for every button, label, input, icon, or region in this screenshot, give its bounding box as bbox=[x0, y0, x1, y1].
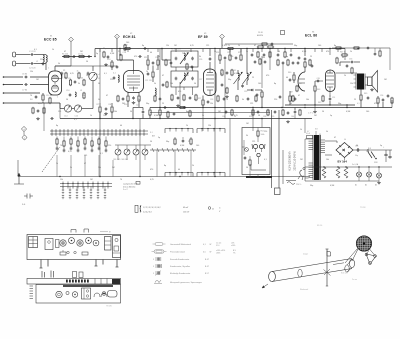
wire bbox=[159, 49, 161, 108]
capacitor C102 bbox=[139, 55, 141, 58]
legend sym resistor2 bbox=[154, 250, 164, 253]
wire bbox=[126, 145, 128, 149]
resistor R135 bbox=[259, 59, 261, 64]
svg-text:4 Ω an Klemme: 4 Ω an Klemme bbox=[123, 186, 135, 188]
wire bbox=[344, 158, 346, 161]
small box bottom bbox=[275, 188, 281, 195]
svg-text:40: 40 bbox=[194, 99, 196, 101]
resistor R15 bbox=[157, 60, 159, 65]
wire bbox=[50, 130, 148, 132]
svg-text:5p: 5p bbox=[158, 137, 160, 139]
svg-text:0,25: 0,25 bbox=[38, 103, 42, 105]
switch contact S9 bbox=[83, 129, 85, 136]
fuse F1 bbox=[307, 136, 313, 139]
svg-text:Ganzmetall-Widerstand: Ganzmetall-Widerstand bbox=[170, 243, 191, 246]
switch contact S16 bbox=[111, 129, 113, 136]
resistor R57 bbox=[105, 141, 107, 146]
svg-text:3k: 3k bbox=[199, 56, 201, 58]
svg-text:10k: 10k bbox=[306, 99, 309, 101]
wire bbox=[261, 90, 263, 91]
svg-text:0,5M: 0,5M bbox=[154, 115, 159, 117]
svg-text:3k: 3k bbox=[242, 99, 244, 101]
resistor R60 bbox=[174, 139, 176, 144]
svg-text:40: 40 bbox=[286, 77, 288, 79]
wire bbox=[144, 145, 146, 149]
svg-text:A2: A2 bbox=[365, 184, 367, 187]
svg-text:3: 3 bbox=[153, 266, 154, 268]
junction bbox=[284, 48, 285, 49]
junction bbox=[257, 48, 258, 49]
svg-text:125: 125 bbox=[252, 141, 255, 143]
svg-text:±30%: ±30% bbox=[216, 253, 221, 255]
resistor R108 bbox=[189, 111, 191, 116]
svg-text:56: 56 bbox=[98, 83, 100, 85]
svg-text:40: 40 bbox=[342, 57, 344, 59]
capacitor C22 bbox=[144, 47, 146, 50]
svg-text:V2: V2 bbox=[130, 33, 132, 35]
fuse symbol bbox=[287, 182, 295, 185]
junction bbox=[202, 107, 203, 108]
capacitor C127 bbox=[311, 65, 314, 67]
wire bbox=[18, 176, 310, 178]
svg-text:10k: 10k bbox=[170, 83, 173, 85]
legend sym cap1 bbox=[155, 257, 157, 261]
T1b cap left bbox=[175, 77, 178, 79]
legend sym wire bbox=[155, 280, 161, 283]
tube V3 EF89 envelope bbox=[204, 69, 217, 96]
capacitor C108 bbox=[251, 54, 254, 56]
svg-text:C3 5p: C3 5p bbox=[78, 54, 83, 56]
T1a cap left bbox=[175, 57, 178, 59]
rear circle dark bbox=[102, 292, 106, 296]
wire bbox=[119, 49, 121, 56]
wire bbox=[269, 52, 271, 70]
svg-text:1k: 1k bbox=[90, 115, 92, 117]
tube V1 ECC85 envelope bbox=[49, 71, 62, 95]
svg-text:8p: 8p bbox=[186, 111, 188, 113]
osc coil L5 bbox=[118, 75, 119, 82]
svg-text:0,25: 0,25 bbox=[190, 45, 194, 47]
junction bbox=[281, 107, 282, 108]
magic eye triode bbox=[257, 153, 260, 156]
resistor R21 bbox=[219, 55, 221, 60]
wire bbox=[329, 49, 331, 56]
svg-text:47: 47 bbox=[84, 163, 86, 165]
junction bbox=[314, 104, 315, 105]
junction bbox=[214, 48, 215, 49]
capacitor C104 bbox=[177, 97, 180, 99]
svg-text:1k: 1k bbox=[300, 129, 302, 131]
svg-text:50: 50 bbox=[86, 61, 88, 63]
wire bbox=[261, 56, 263, 88]
wire bbox=[3, 84, 23, 86]
cathode V2 bbox=[129, 87, 138, 89]
capacitor C130 bbox=[254, 61, 257, 63]
svg-text:125: 125 bbox=[58, 111, 61, 113]
svg-text:V3: V3 bbox=[204, 33, 206, 35]
svg-text:5p: 5p bbox=[330, 115, 332, 117]
wire bbox=[214, 49, 216, 108]
svg-text:Elektrolyt-Kondensator: Elektrolyt-Kondensator bbox=[170, 272, 191, 275]
svg-text:5k: 5k bbox=[58, 63, 60, 65]
svg-text:0,1: 0,1 bbox=[74, 119, 77, 121]
wire bbox=[319, 134, 321, 136]
wire bbox=[62, 56, 92, 58]
svg-text:1 u. 2: 1 u. 2 bbox=[123, 189, 128, 191]
svg-text:8p: 8p bbox=[274, 83, 276, 85]
dial lamp LA3 bbox=[377, 173, 382, 178]
wire bbox=[17, 160, 19, 177]
switch contact S17 bbox=[115, 129, 117, 136]
chassis leg 1 bbox=[40, 260, 42, 269]
wire bbox=[99, 103, 101, 106]
wire bbox=[150, 112, 270, 114]
svg-text:F2: F2 bbox=[234, 70, 236, 72]
dial drum hub bbox=[363, 242, 365, 244]
wire bbox=[325, 154, 332, 156]
contact column K7 bbox=[104, 189, 106, 191]
wire bbox=[305, 180, 379, 182]
resistor R33 bbox=[293, 75, 295, 80]
grid cap C4 bbox=[61, 72, 64, 74]
svg-text:B 47: B 47 bbox=[205, 266, 209, 268]
wire bbox=[252, 49, 254, 53]
svg-text:0,5M: 0,5M bbox=[234, 73, 239, 75]
rear clip shapes bbox=[94, 293, 100, 297]
wire bbox=[98, 137, 100, 140]
junction bbox=[304, 104, 305, 105]
svg-text:3k: 3k bbox=[50, 95, 52, 97]
svg-text:40: 40 bbox=[178, 169, 180, 171]
capacitor C18 bbox=[113, 77, 116, 79]
wire bbox=[45, 62, 47, 70]
resistor R17 bbox=[127, 96, 129, 101]
capacitor C19 bbox=[152, 62, 155, 64]
wire bbox=[179, 82, 181, 108]
wire bbox=[59, 103, 61, 109]
capacitor C31 bbox=[225, 111, 228, 113]
wire bbox=[135, 145, 137, 149]
svg-text:0,1: 0,1 bbox=[357, 103, 360, 105]
svg-text:0,1: 0,1 bbox=[156, 69, 159, 71]
svg-text:C18: C18 bbox=[123, 52, 126, 54]
svg-text:5 10: 5 10 bbox=[216, 245, 219, 247]
svg-text:C6 80: C6 80 bbox=[22, 74, 27, 76]
svg-text:R40: R40 bbox=[288, 72, 291, 74]
junction bbox=[252, 107, 253, 108]
T1a cap right bbox=[191, 57, 194, 59]
resistor R55 bbox=[91, 141, 93, 146]
svg-text:0,1: 0,1 bbox=[222, 45, 225, 47]
svg-text:1k: 1k bbox=[238, 45, 240, 47]
triode system V1b bbox=[52, 85, 59, 92]
resistor R116 bbox=[262, 43, 267, 45]
ground bbox=[42, 62, 44, 63]
chassis top view outline bbox=[27, 235, 121, 260]
resistor R111 bbox=[269, 52, 271, 57]
antenna terminal A1 bbox=[13, 52, 16, 57]
ground bbox=[105, 63, 107, 64]
svg-text:V1: V1 bbox=[50, 36, 52, 38]
terminal bbox=[3, 76, 5, 78]
legend sym cap2 bbox=[155, 264, 157, 268]
IF transformer T1b box bbox=[171, 71, 198, 87]
note circle bbox=[208, 207, 211, 210]
capacitor C116 bbox=[292, 62, 295, 64]
switch contact S3 bbox=[59, 129, 61, 136]
junction bbox=[261, 118, 262, 119]
svg-text:A3: A3 bbox=[375, 184, 377, 187]
svg-text:0,1: 0,1 bbox=[113, 73, 116, 75]
chassis part row bbox=[60, 252, 66, 255]
wire bbox=[147, 49, 149, 53]
rear left dashes bbox=[30, 285, 34, 287]
svg-text:10k: 10k bbox=[98, 167, 101, 169]
junction bbox=[339, 48, 340, 49]
resistor R129 bbox=[309, 60, 311, 65]
svg-text:50: 50 bbox=[194, 83, 196, 85]
switch contact S1 bbox=[51, 129, 53, 136]
svg-text:EF 89: EF 89 bbox=[198, 35, 208, 39]
junction bbox=[345, 166, 346, 167]
mechanical link bbox=[42, 147, 60, 172]
power transformer T3 core bbox=[314, 135, 320, 180]
wire bbox=[365, 76, 368, 78]
wire bbox=[94, 49, 96, 57]
wire bbox=[92, 66, 94, 71]
capacitor C35 bbox=[289, 79, 292, 81]
chassis trimmer b bbox=[74, 251, 76, 253]
svg-text:W: W bbox=[210, 244, 212, 246]
switch contact S20 bbox=[127, 129, 129, 136]
capacitor C129 bbox=[247, 98, 250, 100]
wire bbox=[314, 105, 316, 110]
resistor R50 bbox=[56, 139, 58, 144]
svg-text:470: 470 bbox=[134, 56, 137, 58]
svg-text:470: 470 bbox=[326, 51, 329, 53]
dipole symbol bbox=[24, 194, 33, 199]
junction bbox=[368, 166, 369, 167]
svg-text:1k: 1k bbox=[282, 115, 284, 117]
resistor R54 bbox=[84, 139, 86, 144]
svg-text:0,25: 0,25 bbox=[70, 73, 74, 75]
svg-text:30p: 30p bbox=[310, 185, 313, 187]
svg-text:R5 220: R5 220 bbox=[62, 54, 68, 56]
bridge rectifier BY164 bbox=[336, 143, 353, 158]
svg-text:70: 70 bbox=[120, 179, 122, 181]
svg-text:470: 470 bbox=[178, 91, 181, 93]
svg-text:56: 56 bbox=[246, 167, 248, 169]
contact column K1 bbox=[62, 189, 64, 191]
junction bbox=[159, 107, 160, 108]
svg-text:45: 45 bbox=[212, 208, 214, 210]
svg-text:5p: 5p bbox=[286, 56, 288, 58]
capacitor C106 bbox=[173, 113, 176, 115]
svg-text:R7: R7 bbox=[97, 104, 99, 106]
test point diamond D6 bbox=[22, 135, 27, 140]
dial lamp LA2 bbox=[367, 172, 372, 177]
switch contact S7 bbox=[75, 129, 77, 136]
ground bbox=[371, 88, 373, 89]
svg-text:BY 164: BY 164 bbox=[338, 160, 348, 164]
svg-text:V4: V4 bbox=[312, 32, 314, 34]
resistor R31 bbox=[149, 110, 151, 115]
switch contact lower S46 bbox=[92, 182, 94, 189]
mains plug bbox=[300, 170, 304, 176]
capacitor C34 bbox=[304, 58, 307, 60]
svg-text:15k: 15k bbox=[210, 103, 213, 105]
junction bbox=[214, 118, 215, 119]
junction bbox=[358, 166, 359, 167]
svg-text:220: 220 bbox=[110, 79, 113, 81]
capacitor C110 bbox=[277, 54, 280, 56]
svg-text:50: 50 bbox=[322, 111, 324, 113]
svg-text:TS 58: TS 58 bbox=[360, 207, 366, 209]
resistor R11 bbox=[83, 93, 85, 98]
ground bbox=[105, 112, 107, 113]
svg-text:C8: C8 bbox=[68, 78, 70, 80]
wire bbox=[99, 119, 101, 177]
junction bbox=[139, 176, 140, 177]
IF coil L6 bbox=[238, 73, 239, 80]
switch contact S18 bbox=[119, 129, 121, 136]
wire bbox=[209, 62, 211, 69]
svg-text:2M: 2M bbox=[314, 115, 317, 117]
wire bbox=[159, 108, 161, 110]
capacitor C27 bbox=[241, 85, 244, 87]
svg-text:2k: 2k bbox=[186, 125, 188, 127]
dropper resistor R82 bbox=[344, 167, 348, 178]
wire bbox=[289, 91, 291, 95]
capacitor C133 bbox=[374, 53, 377, 55]
capacitor C63 bbox=[77, 149, 80, 151]
wire bbox=[304, 119, 306, 134]
svg-text:56: 56 bbox=[214, 51, 216, 53]
resistor R137 bbox=[354, 47, 359, 49]
resistor R28 bbox=[231, 110, 233, 115]
trimmer bank bbox=[115, 149, 121, 155]
svg-text:30p: 30p bbox=[294, 45, 297, 47]
resistor R34 bbox=[296, 86, 298, 91]
svg-text:R11: R11 bbox=[144, 57, 147, 59]
capacitor C42 bbox=[294, 111, 297, 113]
resistor R112 bbox=[284, 52, 286, 57]
chassis leg 2 bbox=[47, 260, 49, 267]
wire bbox=[314, 49, 316, 53]
junction bbox=[323, 166, 324, 167]
svg-text:2x um: 2x um bbox=[352, 279, 357, 281]
junction bbox=[214, 107, 215, 108]
capacitor C15 bbox=[105, 108, 108, 110]
ground bbox=[287, 120, 289, 121]
resistor R51 bbox=[63, 141, 65, 146]
resistor R128 bbox=[351, 68, 353, 73]
svg-text:25: 25 bbox=[118, 51, 120, 53]
svg-text:Messpunkt gemessen, Spannungen: Messpunkt gemessen, Spannungen bbox=[170, 281, 202, 284]
capacitor C107 bbox=[162, 84, 165, 86]
svg-text:1k: 1k bbox=[77, 71, 79, 73]
chassis top tabs bbox=[71, 230, 76, 233]
svg-text:470: 470 bbox=[374, 103, 377, 105]
resistor R127 bbox=[336, 58, 338, 63]
svg-text:220 V (110-240 V): 220 V (110-240 V) bbox=[294, 151, 297, 171]
resistor R14 bbox=[147, 60, 149, 65]
svg-text:40: 40 bbox=[150, 52, 152, 54]
resistor R19 bbox=[125, 47, 130, 49]
rear view pins bbox=[41, 271, 43, 278]
wire bbox=[229, 119, 231, 177]
wire bbox=[221, 39, 223, 48]
svg-text:C26: C26 bbox=[199, 59, 202, 61]
svg-text:0,1: 0,1 bbox=[34, 49, 37, 51]
svg-text:100: 100 bbox=[258, 83, 261, 85]
svg-text:5k: 5k bbox=[70, 167, 72, 169]
heptode V2 grid lines bbox=[127, 75, 140, 77]
wire bbox=[42, 93, 44, 94]
capacitor C134 bbox=[297, 62, 300, 64]
resistor R12 bbox=[111, 62, 113, 67]
resistor R1 bbox=[65, 73, 67, 78]
resistor R18 bbox=[138, 96, 140, 101]
diode D4 bbox=[251, 89, 253, 92]
wire bbox=[133, 107, 143, 109]
resistor R121 bbox=[391, 98, 393, 103]
capacitor C5 bbox=[74, 81, 77, 83]
cord around shaft bbox=[324, 270, 331, 276]
pointer flag bbox=[327, 251, 331, 256]
wire bbox=[278, 110, 280, 188]
resistor R7 bbox=[42, 95, 44, 100]
capacitor C32 bbox=[164, 106, 166, 109]
svg-text:R4: R4 bbox=[30, 99, 32, 101]
svg-text:30p: 30p bbox=[146, 103, 149, 105]
capacitor C124 bbox=[191, 66, 194, 68]
wire bbox=[294, 108, 296, 111]
svg-text:3k: 3k bbox=[76, 145, 78, 147]
rear strip dividers bbox=[94, 279, 96, 285]
svg-text:30p: 30p bbox=[338, 103, 341, 105]
wire bbox=[202, 108, 204, 132]
chassis leg 5 bbox=[116, 260, 118, 268]
chassis tube socket 3 bbox=[77, 240, 83, 246]
capacitor C120 bbox=[37, 110, 40, 112]
tube V4a triode envelope bbox=[298, 72, 305, 91]
resistor R5 bbox=[64, 55, 69, 57]
coupling cap C36 bbox=[317, 80, 319, 83]
capacitor C70 bbox=[182, 140, 185, 142]
svg-text:25: 25 bbox=[188, 141, 190, 143]
svg-text:C56: C56 bbox=[380, 95, 383, 97]
wire bbox=[99, 49, 101, 53]
capacitor C109 bbox=[263, 54, 266, 56]
svg-text:5k: 5k bbox=[326, 131, 328, 133]
test point diamond D5 bbox=[21, 126, 26, 131]
switch contact S8 bbox=[79, 129, 81, 136]
svg-text:70: 70 bbox=[64, 77, 66, 79]
wire bbox=[257, 128, 259, 131]
resistor R136 bbox=[336, 47, 341, 49]
wire bbox=[305, 138, 309, 140]
resistor R71 bbox=[249, 160, 251, 165]
chassis transformer right bbox=[105, 237, 112, 251]
resistor R29 bbox=[180, 106, 185, 108]
coil L3 bbox=[75, 92, 76, 97]
svg-text:C49: C49 bbox=[317, 78, 320, 80]
svg-text:50µ: 50µ bbox=[355, 155, 358, 157]
capacitor C125 bbox=[346, 65, 349, 67]
wire bbox=[175, 67, 177, 71]
shaft end cap bbox=[298, 269, 302, 277]
